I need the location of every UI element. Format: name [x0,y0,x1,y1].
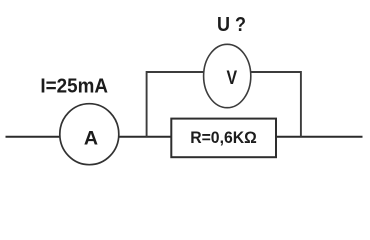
resistor R1 box [171,119,276,158]
svg-text:A: A [84,129,98,150]
svg-text:V: V [227,67,238,89]
svg-text:I=25mA: I=25mA [40,74,108,97]
svg-text:R=0,6KΩ: R=0,6KΩ [190,128,257,147]
wire main bottom [6,136,363,138]
svg-text:U ?: U ? [217,14,246,36]
ammeter U1 circle [60,104,119,165]
wire voltmeter parallel loop [147,72,301,137]
voltmeter U2 ellipse [204,44,251,107]
